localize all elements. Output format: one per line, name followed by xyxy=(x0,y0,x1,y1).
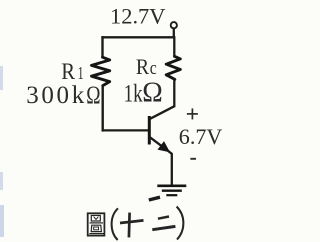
svg-text:6.7V: 6.7V xyxy=(179,124,223,149)
wire: left vertical from top rail to R1 xyxy=(101,36,103,57)
svg-text:1: 1 xyxy=(78,63,84,83)
svg-text:12.7V: 12.7V xyxy=(110,4,166,29)
svg-text:1k: 1k xyxy=(124,81,143,108)
svg-text:Ω: Ω xyxy=(86,82,100,109)
label minus sign xyxy=(190,158,196,160)
resistor R1 xyxy=(92,57,110,85)
svg-text:R: R xyxy=(61,59,75,84)
wire: R1 bottom to base corner xyxy=(101,85,103,132)
wire: top rail xyxy=(101,36,174,38)
stray ink dash above caption xyxy=(149,197,160,200)
caption glyph tu (figure) xyxy=(88,213,105,235)
scan smudge left edge upper xyxy=(0,66,3,90)
svg-text:Ω: Ω xyxy=(142,77,163,109)
svg-text:R: R xyxy=(136,54,149,79)
supply terminal xyxy=(171,22,177,28)
wire: Rc bottom to collector xyxy=(173,79,175,107)
caption glyph ten xyxy=(120,213,144,238)
wire: terminal down to top rail xyxy=(173,29,175,38)
wire: base wire to transistor xyxy=(102,129,149,131)
scan smudge left edge middle xyxy=(0,172,3,190)
transistor Q1 xyxy=(149,106,174,151)
caption glyph two xyxy=(152,217,175,230)
scan smudge left edge lower xyxy=(0,205,4,237)
ground xyxy=(157,186,186,195)
caption close paren xyxy=(177,207,184,240)
wire: emitter to ground xyxy=(168,151,172,185)
caption open paren xyxy=(112,208,118,240)
resistor Rc xyxy=(166,56,180,79)
wire: top rail down to Rc xyxy=(173,36,175,56)
label plus sign xyxy=(187,108,198,119)
